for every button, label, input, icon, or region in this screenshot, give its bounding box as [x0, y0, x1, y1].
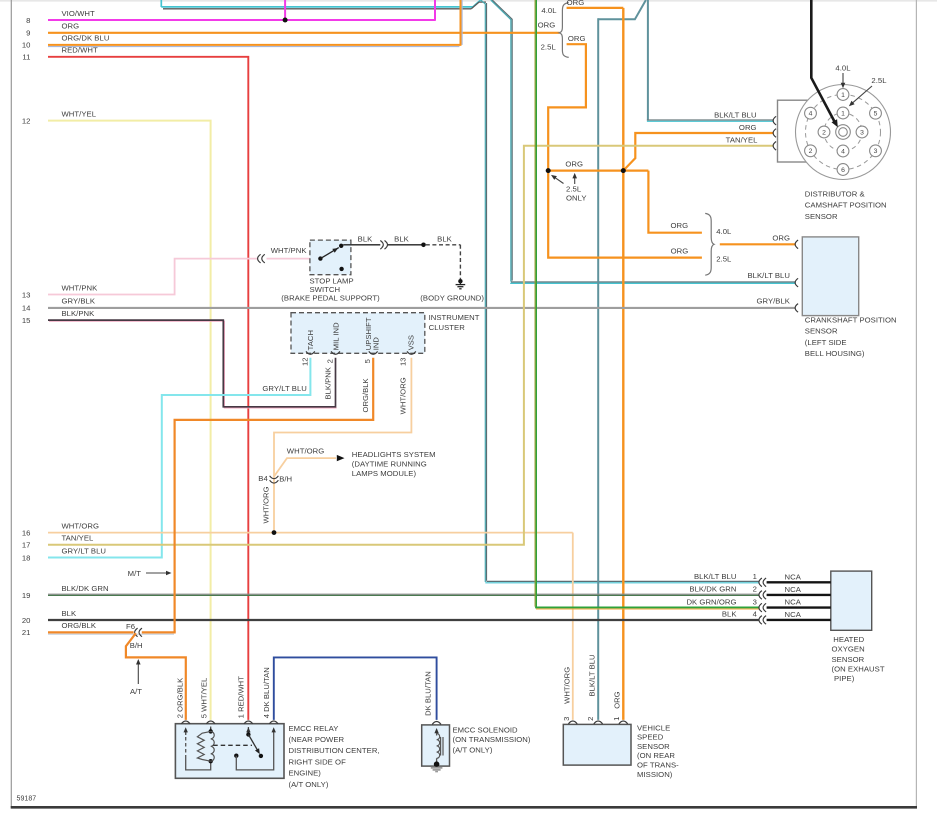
- svg-text:SENSOR: SENSOR: [637, 742, 670, 751]
- svg-text:BLK/LT BLU: BLK/LT BLU: [714, 110, 757, 119]
- svg-text:BLK/LT BLU: BLK/LT BLU: [694, 572, 737, 581]
- svg-text:BLK/LT BLU: BLK/LT BLU: [747, 271, 790, 280]
- svg-text:GRY/BLK: GRY/BLK: [62, 297, 96, 306]
- svg-text:4.0L: 4.0L: [835, 63, 851, 72]
- svg-text:B/H: B/H: [130, 641, 143, 650]
- svg-text:(A/T ONLY): (A/T ONLY): [453, 746, 493, 755]
- svg-text:DISTRIBUTOR &: DISTRIBUTOR &: [805, 189, 865, 198]
- svg-text:SENSOR: SENSOR: [805, 327, 838, 336]
- svg-text:WHT/ORG: WHT/ORG: [261, 486, 270, 523]
- svg-text:M/T: M/T: [128, 569, 142, 578]
- svg-text:ORG/DK BLU: ORG/DK BLU: [62, 34, 110, 43]
- svg-text:1: 1: [841, 110, 845, 117]
- svg-text:16: 16: [22, 528, 31, 537]
- svg-text:NCA: NCA: [785, 585, 802, 594]
- svg-text:2.5L: 2.5L: [716, 255, 732, 264]
- svg-text:1: 1: [753, 572, 757, 581]
- svg-text:WHT/ORG: WHT/ORG: [287, 447, 325, 456]
- svg-text:WHT/ORG: WHT/ORG: [62, 521, 100, 530]
- svg-text:DK GRN/ORG: DK GRN/ORG: [686, 597, 736, 606]
- svg-text:4: 4: [841, 148, 845, 155]
- svg-text:2.5L: 2.5L: [566, 184, 582, 193]
- svg-text:BLK: BLK: [394, 235, 410, 244]
- svg-text:19: 19: [22, 591, 31, 600]
- svg-text:21: 21: [22, 628, 31, 637]
- svg-text:2: 2: [753, 585, 757, 594]
- svg-text:BLK/LT BLU: BLK/LT BLU: [588, 654, 597, 696]
- svg-text:DK BLU/TAN: DK BLU/TAN: [424, 671, 433, 716]
- svg-text:3: 3: [874, 148, 878, 155]
- svg-text:VSS: VSS: [407, 335, 416, 350]
- svg-text:A/T: A/T: [130, 687, 142, 696]
- svg-text:BLK/PNK: BLK/PNK: [324, 367, 333, 399]
- svg-text:12: 12: [22, 116, 31, 125]
- svg-text:1: 1: [612, 717, 621, 721]
- svg-text:(ON TRANSMISSION): (ON TRANSMISSION): [453, 735, 531, 744]
- svg-text:SENSOR: SENSOR: [832, 655, 865, 664]
- svg-text:CRANKSHAFT POSITION: CRANKSHAFT POSITION: [805, 315, 897, 324]
- svg-text:2: 2: [822, 129, 826, 136]
- svg-text:RED/WHT: RED/WHT: [62, 46, 98, 55]
- svg-text:BLK: BLK: [437, 235, 453, 244]
- svg-text:BLK/DK GRN: BLK/DK GRN: [62, 584, 109, 593]
- svg-text:TACH: TACH: [306, 330, 315, 350]
- svg-text:RIGHT SIDE OF: RIGHT SIDE OF: [289, 758, 347, 767]
- svg-text:WHT/YEL: WHT/YEL: [62, 109, 97, 118]
- svg-text:ORG: ORG: [670, 221, 688, 230]
- svg-text:1 RED/WHT: 1 RED/WHT: [237, 676, 246, 719]
- svg-text:5: 5: [874, 111, 878, 118]
- svg-text:17: 17: [22, 541, 31, 550]
- svg-text:INSTRUMENT: INSTRUMENT: [429, 313, 480, 322]
- svg-text:DISTRIBUTION CENTER,: DISTRIBUTION CENTER,: [289, 746, 380, 755]
- svg-text:5: 5: [363, 359, 372, 363]
- svg-text:14: 14: [22, 304, 31, 313]
- svg-text:PIPE): PIPE): [834, 674, 855, 683]
- svg-text:59187: 59187: [17, 795, 37, 802]
- svg-text:12: 12: [300, 357, 309, 366]
- svg-text:4: 4: [753, 610, 758, 619]
- svg-text:ORG/BLK: ORG/BLK: [62, 621, 97, 630]
- svg-text:MISSION): MISSION): [637, 770, 673, 779]
- svg-text:4.0L: 4.0L: [541, 6, 557, 15]
- svg-text:3: 3: [562, 717, 571, 721]
- svg-text:(NEAR POWER: (NEAR POWER: [289, 735, 345, 744]
- svg-text:WHT/PNK: WHT/PNK: [62, 283, 99, 292]
- svg-text:LAMPS MODULE): LAMPS MODULE): [352, 469, 417, 478]
- svg-text:ORG/BLK: ORG/BLK: [361, 378, 370, 412]
- svg-text:18: 18: [22, 553, 31, 562]
- svg-text:WHT/ORG: WHT/ORG: [399, 377, 408, 414]
- svg-text:2: 2: [809, 148, 813, 155]
- svg-text:5 WHT/YEL: 5 WHT/YEL: [199, 678, 208, 719]
- svg-text:VIO/WHT: VIO/WHT: [62, 9, 95, 18]
- svg-text:13: 13: [399, 357, 408, 366]
- svg-text:NCA: NCA: [785, 610, 802, 619]
- svg-text:10: 10: [22, 41, 31, 50]
- svg-text:HEADLIGHTS SYSTEM: HEADLIGHTS SYSTEM: [352, 450, 436, 459]
- svg-text:4: 4: [809, 111, 813, 118]
- svg-text:BLK: BLK: [722, 610, 738, 619]
- svg-text:20: 20: [22, 616, 31, 625]
- svg-text:ORG: ORG: [772, 234, 790, 243]
- svg-text:11: 11: [22, 53, 30, 62]
- svg-text:BLK/PNK: BLK/PNK: [62, 309, 96, 318]
- svg-text:WHT/PNK: WHT/PNK: [271, 246, 308, 255]
- svg-text:2.5L: 2.5L: [871, 76, 887, 85]
- svg-text:15: 15: [22, 316, 31, 325]
- svg-text:HEATED: HEATED: [833, 635, 864, 644]
- svg-text:SPEED: SPEED: [637, 733, 664, 742]
- svg-text:(LEFT SIDE: (LEFT SIDE: [805, 338, 847, 347]
- svg-text:BLK/DK GRN: BLK/DK GRN: [689, 585, 736, 594]
- svg-text:CAMSHAFT POSITION: CAMSHAFT POSITION: [805, 201, 887, 210]
- svg-text:OXYGEN: OXYGEN: [832, 644, 865, 653]
- svg-text:ORG: ORG: [612, 691, 621, 708]
- svg-text:(DAYTIME RUNNING: (DAYTIME RUNNING: [352, 460, 427, 469]
- svg-text:3: 3: [753, 597, 757, 606]
- svg-text:9: 9: [26, 29, 30, 38]
- svg-text:BLK: BLK: [358, 235, 374, 244]
- svg-text:(A/T ONLY): (A/T ONLY): [289, 780, 329, 789]
- svg-text:B4: B4: [258, 474, 268, 483]
- svg-text:BELL HOUSING): BELL HOUSING): [805, 349, 865, 358]
- svg-text:2 ORG/BLK: 2 ORG/BLK: [175, 678, 184, 719]
- svg-text:ORG: ORG: [567, 0, 585, 7]
- svg-text:ORG: ORG: [568, 34, 586, 43]
- svg-text:IND: IND: [372, 337, 381, 351]
- svg-text:TAN/YEL: TAN/YEL: [726, 136, 758, 145]
- svg-text:1: 1: [841, 92, 845, 99]
- svg-text:2: 2: [586, 717, 595, 721]
- svg-text:8: 8: [26, 16, 30, 25]
- svg-text:GRY/BLK: GRY/BLK: [756, 296, 790, 305]
- svg-text:(BRAKE PEDAL SUPPORT): (BRAKE PEDAL SUPPORT): [281, 294, 380, 303]
- svg-text:NCA: NCA: [785, 598, 802, 607]
- svg-text:3: 3: [860, 129, 864, 136]
- svg-text:ORG: ORG: [565, 160, 583, 169]
- svg-text:BLK: BLK: [62, 609, 78, 618]
- svg-text:6: 6: [841, 167, 845, 174]
- svg-text:GRY/LT BLU: GRY/LT BLU: [262, 384, 307, 393]
- svg-text:B/H: B/H: [279, 475, 292, 484]
- svg-text:TAN/YEL: TAN/YEL: [62, 534, 94, 543]
- svg-text:ONLY: ONLY: [566, 194, 587, 203]
- svg-text:ORG: ORG: [671, 246, 689, 255]
- svg-text:(ON EXHAUST: (ON EXHAUST: [832, 664, 885, 673]
- svg-text:ORG: ORG: [739, 123, 757, 132]
- svg-text:13: 13: [22, 290, 31, 299]
- svg-text:SENSOR: SENSOR: [805, 212, 838, 221]
- svg-text:2.5L: 2.5L: [541, 43, 557, 52]
- svg-text:F6: F6: [126, 622, 135, 631]
- svg-text:ORG: ORG: [62, 22, 80, 31]
- svg-text:(BODY GROUND): (BODY GROUND): [420, 294, 484, 303]
- svg-text:(ON REAR: (ON REAR: [637, 751, 675, 760]
- svg-text:CLUSTER: CLUSTER: [429, 323, 466, 332]
- svg-text:WHT/ORG: WHT/ORG: [563, 667, 572, 704]
- svg-text:MIL IND: MIL IND: [331, 322, 340, 350]
- svg-text:2: 2: [325, 359, 334, 363]
- svg-text:ORG: ORG: [538, 20, 556, 29]
- svg-text:NCA: NCA: [785, 572, 802, 581]
- svg-text:VEHICLE: VEHICLE: [637, 723, 670, 732]
- svg-text:EMCC SOLENOID: EMCC SOLENOID: [453, 726, 519, 735]
- svg-text:GRY/LT BLU: GRY/LT BLU: [62, 546, 107, 555]
- svg-text:OF TRANS-: OF TRANS-: [637, 761, 679, 770]
- svg-text:ENGINE): ENGINE): [289, 768, 322, 777]
- svg-text:4.0L: 4.0L: [716, 227, 732, 236]
- svg-text:4 DK BLU/TAN: 4 DK BLU/TAN: [262, 667, 271, 718]
- svg-text:EMCC RELAY: EMCC RELAY: [289, 724, 339, 733]
